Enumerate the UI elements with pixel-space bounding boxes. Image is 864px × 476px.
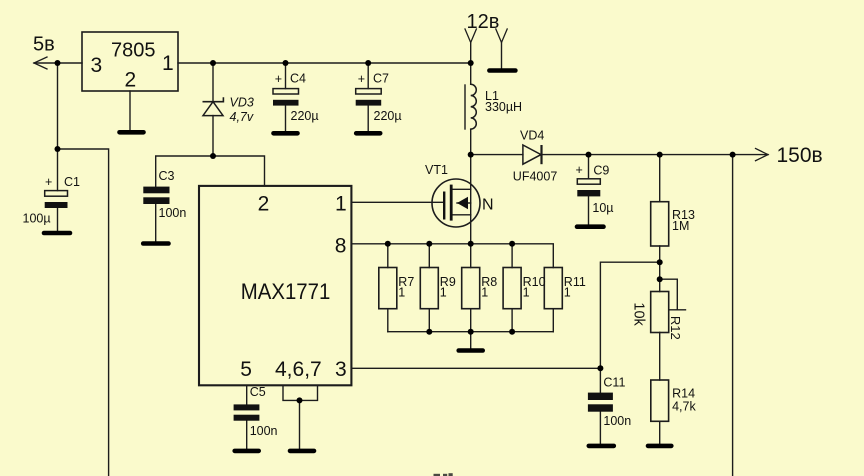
svg-text:C9: C9 — [593, 164, 609, 178]
svg-text:220µ: 220µ — [374, 109, 402, 123]
svg-text:12в: 12в — [467, 11, 500, 33]
svg-text:10k: 10k — [631, 302, 647, 326]
svg-text:R14: R14 — [672, 387, 695, 401]
svg-text:+: + — [275, 72, 282, 86]
svg-text:1: 1 — [481, 286, 488, 300]
svg-text:C1: C1 — [64, 175, 80, 189]
svg-text:4,6,7: 4,6,7 — [275, 358, 322, 381]
svg-text:1: 1 — [523, 286, 530, 300]
svg-text:+: + — [45, 175, 52, 189]
svg-text:4,7k: 4,7k — [672, 400, 696, 414]
svg-text:100n: 100n — [250, 424, 278, 438]
svg-text:220µ: 220µ — [291, 109, 319, 123]
svg-text:C4: C4 — [290, 71, 306, 85]
svg-text:100n: 100n — [603, 414, 631, 428]
svg-text:2: 2 — [125, 69, 137, 92]
svg-text:N: N — [482, 197, 494, 214]
svg-text:1: 1 — [398, 286, 405, 300]
svg-text:1: 1 — [440, 286, 447, 300]
svg-text:+: + — [358, 72, 365, 86]
svg-text:C3: C3 — [159, 169, 175, 183]
svg-text:10µ: 10µ — [592, 201, 613, 215]
svg-text:1: 1 — [162, 52, 174, 75]
svg-text:C7: C7 — [373, 71, 389, 85]
svg-text:330µH: 330µH — [485, 100, 522, 114]
svg-text:100n: 100n — [159, 206, 187, 220]
svg-text:VT1: VT1 — [425, 163, 448, 177]
svg-text:C11: C11 — [603, 376, 625, 390]
svg-text:VD4: VD4 — [520, 129, 544, 143]
svg-text:4,7v: 4,7v — [230, 110, 254, 124]
svg-text:MAX1771: MAX1771 — [241, 279, 330, 304]
svg-text:3: 3 — [91, 54, 103, 77]
svg-text:8: 8 — [335, 234, 347, 257]
svg-text:VD3: VD3 — [230, 96, 254, 110]
svg-text:1M: 1M — [672, 219, 689, 233]
svg-text:1: 1 — [564, 286, 571, 300]
svg-text:5: 5 — [240, 358, 252, 381]
svg-text:1: 1 — [335, 192, 347, 215]
svg-text:UF4007: UF4007 — [513, 170, 558, 184]
svg-text:+: + — [576, 163, 583, 177]
svg-text:3: 3 — [335, 358, 347, 381]
svg-text:100µ: 100µ — [23, 212, 51, 226]
svg-text:2: 2 — [258, 192, 270, 215]
svg-text:150в: 150в — [777, 144, 823, 167]
svg-text:R12: R12 — [668, 316, 683, 340]
svg-text:C5: C5 — [250, 385, 266, 399]
svg-text:5в: 5в — [33, 34, 55, 56]
svg-text:7805: 7805 — [111, 39, 156, 61]
